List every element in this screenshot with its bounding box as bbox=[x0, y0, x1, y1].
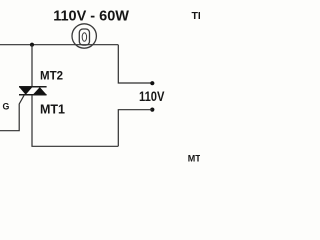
triac: right triangle (points up) bbox=[33, 87, 46, 94]
wire: right branch upper (down then right to terminal) bbox=[118, 45, 152, 83]
triac: left triangle (points down) bbox=[19, 87, 32, 95]
wire: MT2 lead (vertical) bbox=[31, 45, 33, 87]
svg-text:MT1: MT1 bbox=[40, 103, 65, 117]
lamp 110V-60W (circle with filament icon) bbox=[72, 24, 96, 48]
svg-text:G: G bbox=[3, 101, 10, 111]
wire: MT1 lead down and along bottom bbox=[32, 95, 118, 146]
wire: right branch lower (left then down to bottom wire) bbox=[118, 110, 152, 147]
wire: top AC line from left edge to right corner bbox=[0, 44, 118, 46]
svg-text:110V - 60W: 110V - 60W bbox=[53, 9, 129, 25]
node: upper AC terminal bbox=[150, 81, 154, 85]
wire: gate lead (diagonal, vertical, out left edge) bbox=[0, 95, 24, 131]
svg-text:TRIAC: TRIAC bbox=[192, 10, 201, 22]
svg-text:MT2: MT2 bbox=[188, 153, 200, 163]
node A: junction of line and MT2 lead bbox=[30, 43, 34, 47]
triac: bottom bar bbox=[19, 94, 47, 96]
svg-text:110V: 110V bbox=[139, 89, 165, 104]
node: lower AC terminal bbox=[150, 108, 154, 112]
triac: top bar bbox=[19, 86, 47, 88]
svg-text:MT2: MT2 bbox=[40, 71, 63, 83]
